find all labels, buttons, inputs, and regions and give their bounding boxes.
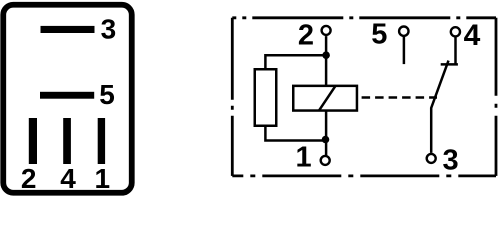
svg-text:4: 4 — [60, 163, 76, 194]
svg-text:1: 1 — [95, 163, 111, 194]
svg-text:1: 1 — [296, 141, 312, 173]
svg-text:2: 2 — [298, 19, 314, 51]
svg-text:3: 3 — [101, 14, 117, 45]
svg-text:3: 3 — [443, 145, 459, 177]
svg-text:2: 2 — [21, 163, 37, 194]
svg-text:5: 5 — [99, 79, 115, 110]
svg-text:5: 5 — [371, 19, 387, 51]
svg-text:4: 4 — [464, 19, 481, 52]
